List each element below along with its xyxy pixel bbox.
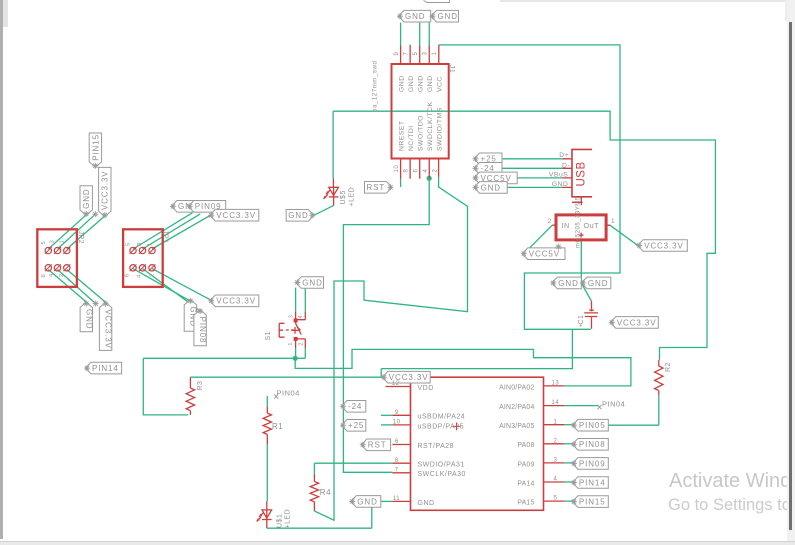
node junction dot S1 bottom bbox=[293, 356, 298, 361]
svg-text:9: 9 bbox=[394, 52, 400, 56]
svg-text:AIN2/PA04: AIN2/PA04 bbox=[499, 404, 534, 411]
wire S1 pin2 down bbox=[304, 348, 306, 358]
svg-text:5: 5 bbox=[554, 496, 558, 502]
svg-text:SWO/TDO: SWO/TDO bbox=[417, 115, 424, 151]
wire LED1 cathode rail bbox=[267, 527, 372, 529]
svg-text:2: 2 bbox=[298, 342, 304, 346]
window chrome: top hairline bbox=[500, 0, 785, 2]
svg-text:5: 5 bbox=[126, 242, 132, 246]
svg-text:GND: GND bbox=[481, 183, 501, 192]
svg-text:SWDCLK/TCK: SWDCLK/TCK bbox=[427, 101, 434, 151]
capacitor C1 bbox=[584, 301, 598, 329]
wire MCU pin14 AIN2 to PIN04 label bbox=[564, 405, 598, 407]
GND flag left of C1 bbox=[550, 277, 581, 289]
resistor R3 leads bbox=[189, 377, 191, 415]
svg-text:2: 2 bbox=[554, 438, 558, 444]
wire JP1 pin6 to GND flag bbox=[133, 269, 190, 302]
svg-text:4: 4 bbox=[298, 315, 304, 319]
svg-text:J1: J1 bbox=[448, 65, 457, 74]
svg-text:USB: USB bbox=[576, 161, 588, 186]
svg-text:5: 5 bbox=[413, 52, 419, 56]
flag GND vertical below JP1 bbox=[184, 298, 197, 331]
svg-text:R1: R1 bbox=[272, 422, 283, 431]
resistor R1 leads bbox=[266, 407, 268, 445]
wire left drop to R3 bottom bbox=[143, 358, 188, 415]
svg-text:2: 2 bbox=[548, 218, 552, 225]
regulator IC2 pin stubs bbox=[552, 224, 610, 226]
svg-text:1: 1 bbox=[288, 342, 294, 346]
wire MCU pin5 PA15 stub bbox=[564, 500, 572, 502]
svg-text:AIN3/PA05: AIN3/PA05 bbox=[499, 423, 534, 430]
wire JP1 pin3 up-right bbox=[143, 214, 201, 249]
watermark Go to Settings bbox=[668, 496, 795, 515]
switch S1 node dots bbox=[294, 318, 298, 322]
svg-text:1: 1 bbox=[432, 52, 438, 56]
svg-text:PIN15: PIN15 bbox=[91, 134, 100, 161]
wire SWCLK net J1 pin4 down-left to MCU pin7 bbox=[343, 178, 429, 472]
wire S1 net to MCU AIN0 pin13 bbox=[295, 349, 631, 386]
svg-text:GND: GND bbox=[417, 75, 424, 92]
svg-text:GND: GND bbox=[357, 497, 377, 506]
svg-text:5: 5 bbox=[41, 241, 47, 245]
wire USB D+ to +25 flag bbox=[502, 158, 563, 160]
svg-text:+: + bbox=[579, 323, 584, 330]
wire MCU pin11 GND to flag bbox=[381, 500, 393, 502]
flag GND vertical above JP2 bbox=[80, 186, 92, 217]
partial flag above top edge bbox=[424, 0, 450, 3]
wire MCU pin4 PA14 stub bbox=[564, 481, 572, 483]
star at JP2 bottom middle wire end bbox=[93, 301, 99, 307]
wire USB GND to GND flag bbox=[507, 186, 562, 188]
wire MCU pin1 AIN3 stub bbox=[564, 424, 572, 426]
wire IC2 OUT pin1 to VCC3.3V flag bbox=[610, 225, 638, 245]
svg-text:PIN15: PIN15 bbox=[579, 498, 606, 507]
wire net from LED2 anode across top to R2 bbox=[333, 111, 715, 360]
wire VCC3.3V branch to C1 rail bbox=[381, 329, 572, 368]
svg-text:6: 6 bbox=[125, 273, 131, 277]
wire JP1 pin5 to PIN09 area bbox=[133, 213, 192, 249]
wire MCU pin3 PA09 stub bbox=[564, 462, 572, 464]
wire S1 bottom rail to left bbox=[143, 357, 305, 359]
svg-text:RST: RST bbox=[368, 441, 387, 450]
svg-text:4: 4 bbox=[554, 477, 558, 483]
flag PIN08 bbox=[571, 439, 608, 451]
wire J1 pin10 stub tail bbox=[400, 179, 402, 187]
flag RST at MCU pin6 bbox=[360, 439, 391, 451]
flag GND at USB GND bbox=[473, 182, 508, 194]
wire JP2 pin2 to VCC3.3V flag bbox=[67, 270, 106, 303]
GND flag at J1 pin3 bbox=[430, 10, 459, 22]
header J1 top pin stubs bbox=[401, 45, 439, 64]
svg-text:uSBDM/PA24: uSBDM/PA24 bbox=[418, 414, 466, 421]
svg-text:11: 11 bbox=[393, 496, 400, 502]
window chrome: bottom band bbox=[0, 541, 795, 545]
resistor R2 leads bbox=[658, 360, 660, 396]
svg-text:VCC3.3V: VCC3.3V bbox=[104, 309, 113, 349]
svg-text:PIN14: PIN14 bbox=[579, 478, 606, 487]
svg-text:PIN04: PIN04 bbox=[602, 400, 625, 409]
svg-text:JP2: JP2 bbox=[77, 231, 84, 245]
svg-text:4: 4 bbox=[423, 169, 429, 173]
svg-text:3: 3 bbox=[50, 240, 56, 244]
svg-text:PIN08: PIN08 bbox=[198, 317, 207, 344]
MCU left pin stubs bbox=[386, 387, 411, 502]
svg-text:RST: RST bbox=[367, 183, 386, 192]
flag PIN15 vertical above JP2 bbox=[89, 133, 101, 169]
wire MCU pin2 PA08 stub bbox=[564, 443, 572, 445]
wire IC2 GND down to GND flags bbox=[580, 240, 582, 282]
svg-text:6: 6 bbox=[41, 274, 47, 278]
svg-text:GND: GND bbox=[302, 278, 322, 287]
svg-text:OuT: OuT bbox=[584, 221, 600, 230]
flag -24 at MCU USBDM bbox=[340, 401, 366, 413]
USB shield stubs bbox=[572, 197, 583, 206]
svg-text:NC/TDI: NC/TDI bbox=[408, 125, 415, 151]
flag VCC5V at IC2 IN bbox=[521, 248, 565, 260]
svg-text:PIN04: PIN04 bbox=[277, 389, 300, 398]
wire USB D- to -24 flag bbox=[502, 167, 563, 169]
svg-text:4: 4 bbox=[137, 274, 143, 278]
GND flag right at C1 bbox=[580, 277, 611, 289]
flag GND vertical below JP2 bbox=[80, 301, 93, 332]
svg-text:VDD: VDD bbox=[418, 385, 434, 392]
svg-text:14: 14 bbox=[552, 400, 560, 406]
USB pin stubs bbox=[563, 159, 573, 188]
wire LED2 cathode to GND flag bbox=[314, 206, 334, 216]
GND flag above S1 bbox=[294, 277, 323, 289]
svg-text:9: 9 bbox=[395, 410, 399, 416]
svg-text:PIN09: PIN09 bbox=[579, 459, 606, 468]
svg-text:VBuS: VBuS bbox=[549, 172, 568, 179]
wire JP2 pin5 to GND flag bbox=[48, 215, 86, 249]
svg-text:7: 7 bbox=[403, 52, 409, 56]
svg-text:R4: R4 bbox=[320, 488, 331, 497]
svg-text:PA09: PA09 bbox=[517, 461, 534, 468]
svg-text:-24: -24 bbox=[348, 402, 362, 411]
wire S1 pin1 down bbox=[295, 348, 297, 358]
wire USB VBUS to VCC5V flag bbox=[517, 177, 562, 179]
star at JP2 top middle wire end bbox=[92, 211, 98, 217]
resistor R3 body bbox=[186, 388, 194, 411]
flag +25 at USB D+ bbox=[473, 153, 503, 165]
wire VDD flag tee bbox=[380, 369, 382, 378]
wire LED2 anode vertical bbox=[332, 111, 334, 178]
LED U$5 top lead bbox=[332, 179, 334, 188]
svg-text:VCC3.3V: VCC3.3V bbox=[617, 318, 657, 327]
resistor R4 body bbox=[310, 482, 318, 502]
svg-text:GND: GND bbox=[588, 279, 608, 288]
wire JP1 pin4 to PIN08 flag bbox=[143, 269, 201, 311]
wire IC2 IN pin2 to VCC5V flag bbox=[529, 225, 552, 248]
svg-text:PIN05: PIN05 bbox=[579, 421, 606, 430]
switch S1 symbol bbox=[279, 312, 305, 348]
wire J1 pin3 to GND flag bbox=[428, 23, 430, 46]
svg-text:PA14: PA14 bbox=[517, 480, 534, 487]
svg-text:GND: GND bbox=[552, 181, 569, 188]
window chrome: left edge strip bbox=[0, 0, 3, 539]
star mark at VCC5V flag corner bbox=[556, 244, 562, 250]
wire JP1 pin2 to VCC3.3V flag bbox=[152, 269, 210, 300]
wire S1 pin3 up to GND flag bbox=[295, 288, 297, 312]
wire S1 pin4 up bbox=[304, 288, 306, 312]
wire JP1 pin1 to VCC3.3V flag bbox=[152, 215, 211, 249]
flag VCC3.3V vertical above JP2 bbox=[99, 167, 111, 218]
svg-text:VCC3.3V: VCC3.3V bbox=[644, 241, 684, 250]
resistor R2 body bbox=[655, 366, 663, 391]
svg-text:8: 8 bbox=[404, 169, 410, 173]
flag VCC3.3V above JP1 bbox=[208, 209, 258, 221]
svg-text:VCC3.3V: VCC3.3V bbox=[101, 170, 110, 210]
svg-text:4: 4 bbox=[49, 273, 55, 277]
flag PIN14 bbox=[571, 477, 608, 489]
svg-text:2: 2 bbox=[59, 273, 65, 277]
svg-text:D+: D+ bbox=[559, 152, 569, 159]
svg-text:GND: GND bbox=[84, 309, 93, 329]
svg-text:PA08: PA08 bbox=[517, 442, 534, 449]
wire PIN04 net to R1 top bbox=[266, 396, 268, 407]
svg-text:S1: S1 bbox=[265, 331, 272, 341]
GND flag at LED2 cathode bbox=[286, 210, 315, 222]
svg-text:AIN0/PA02: AIN0/PA02 bbox=[499, 384, 534, 391]
svg-text:1: 1 bbox=[611, 218, 615, 225]
node junction dot under J1 pin4 bbox=[427, 176, 432, 181]
svg-text:NRESET: NRESET bbox=[398, 120, 405, 151]
LED U$1 (LED1) bbox=[257, 510, 272, 528]
wire GND flags to C1 top bbox=[581, 283, 591, 301]
flag VCC3.3V at MCU VDD bbox=[381, 371, 430, 383]
svg-text:3: 3 bbox=[137, 242, 143, 246]
regulator IC2 polarity mark bbox=[579, 233, 584, 238]
flag PIN14 left area bbox=[84, 362, 122, 374]
flag VCC3.3V at IC2 OUT bbox=[636, 240, 687, 252]
svg-text:10: 10 bbox=[394, 165, 400, 173]
flag GND above JP1 bbox=[170, 201, 202, 213]
svg-text:JP1: JP1 bbox=[162, 230, 169, 244]
resistor R4 leads bbox=[313, 474, 315, 511]
header J1 box bbox=[392, 64, 449, 159]
wire GND drop to LED1 rail bbox=[371, 502, 373, 528]
wire MCU pin9 USBDM stub bbox=[381, 414, 392, 416]
svg-text:GND: GND bbox=[418, 500, 435, 507]
svg-text:GND: GND bbox=[82, 188, 91, 208]
node junction dot joint SWCLK elbow bbox=[342, 224, 344, 226]
svg-text:SWDIO/TMS: SWDIO/TMS bbox=[437, 107, 444, 151]
wire SWDIO rail to R4 top and MCU pin8 bbox=[314, 463, 392, 474]
svg-text:GND: GND bbox=[438, 12, 458, 21]
svg-text:IN: IN bbox=[562, 221, 570, 230]
svg-text:1: 1 bbox=[60, 240, 66, 244]
wire SWDIO net J1 pin2 zigzag path to R4 bottom bbox=[314, 177, 467, 520]
svg-text:2: 2 bbox=[432, 169, 438, 173]
wire MCU pin10 USBDP stub bbox=[381, 424, 392, 426]
svg-text:GND: GND bbox=[405, 12, 425, 21]
connector JP1 (right) bbox=[123, 229, 163, 287]
svg-text:mic5205_33YM5: mic5205_33YM5 bbox=[576, 196, 582, 248]
MCU IC box bbox=[411, 377, 544, 510]
wire JP2 pin6 to GND flag bbox=[48, 270, 86, 303]
wire R1 bottom to LED1 anode bbox=[266, 444, 268, 501]
svg-text:+LED: +LED bbox=[285, 509, 292, 529]
LED U$5 (LED2) bbox=[323, 187, 338, 205]
svg-text:VCC5V: VCC5V bbox=[529, 250, 560, 259]
header J1 bottom pin stubs bbox=[401, 159, 439, 179]
svg-text:PIN08: PIN08 bbox=[579, 440, 606, 449]
wire J1 pin5 to GND flag bbox=[419, 23, 421, 46]
svg-text:GND: GND bbox=[288, 211, 308, 220]
flag VCC5V at USB VBUS bbox=[473, 172, 518, 184]
svg-text:VCC3.3V: VCC3.3V bbox=[216, 211, 256, 220]
wire R2 bottom to PIN05 net bbox=[658, 395, 660, 425]
svg-text:PA15: PA15 bbox=[517, 500, 534, 507]
wire PIN05 flag to R2 net bbox=[608, 424, 659, 426]
flag PIN09 bbox=[571, 458, 608, 470]
svg-text:6: 6 bbox=[413, 169, 419, 173]
svg-text:3: 3 bbox=[554, 458, 558, 464]
svg-text:1: 1 bbox=[148, 242, 154, 246]
regulator IC2 box bbox=[556, 215, 606, 240]
svg-text:+25: +25 bbox=[348, 421, 364, 430]
svg-text:3: 3 bbox=[422, 52, 428, 56]
svg-text:GND: GND bbox=[427, 75, 434, 92]
MCU right pin stubs bbox=[544, 386, 565, 501]
svg-text:2: 2 bbox=[150, 273, 156, 277]
svg-text:GND: GND bbox=[558, 279, 578, 288]
flag PIN05 bbox=[571, 419, 608, 431]
wire J1 pin9 to GND flag bbox=[400, 23, 402, 46]
resistor R1 body bbox=[263, 413, 271, 434]
svg-text:10: 10 bbox=[393, 420, 401, 426]
svg-text:8: 8 bbox=[395, 458, 399, 464]
svg-text:R2: R2 bbox=[665, 362, 672, 372]
flag +25 at MCU USBDP bbox=[340, 420, 366, 432]
wire VCC net J1-pin1 to regulator/C1 loop bbox=[439, 45, 620, 329]
flag -24 at USB D- bbox=[473, 163, 503, 175]
wire JP2 pin4 down-right bbox=[58, 270, 96, 304]
svg-text:SWCLK/PA30: SWCLK/PA30 bbox=[418, 471, 466, 478]
window chrome: right scrollbar thumb bbox=[789, 22, 792, 530]
svg-text:PIN14: PIN14 bbox=[92, 364, 119, 373]
watermark Activate Windows bbox=[669, 470, 795, 493]
USB connector outline bbox=[572, 149, 592, 196]
svg-text:3: 3 bbox=[288, 315, 294, 319]
svg-text:D-: D- bbox=[562, 162, 570, 169]
svg-text:GND: GND bbox=[408, 75, 415, 92]
svg-text:U$5: U$5 bbox=[340, 190, 347, 204]
svg-text:SWDIO/PA31: SWDIO/PA31 bbox=[418, 462, 465, 469]
flag PIN08 vertical below JP1 bbox=[194, 308, 207, 346]
flag PIN09 above JP1 bbox=[187, 201, 226, 213]
svg-text:GND: GND bbox=[398, 75, 405, 92]
flag PIN15 bbox=[571, 496, 608, 508]
window chrome: right scrollbar track bbox=[787, 0, 795, 545]
svg-text:RST/PA28: RST/PA28 bbox=[418, 443, 455, 450]
svg-text:6: 6 bbox=[395, 439, 399, 445]
svg-text:7: 7 bbox=[395, 467, 399, 473]
window chrome: top-right corner block bbox=[785, 0, 795, 21]
origin cross of MCU bbox=[453, 422, 461, 430]
svg-text:1: 1 bbox=[554, 419, 558, 425]
flag GND at MCU pin11 bbox=[349, 496, 381, 508]
RST flag near J1 pin10 bbox=[365, 182, 394, 194]
connector JP2 (left) bbox=[37, 229, 77, 287]
flag VCC3.3V vertical below JP2 bbox=[99, 301, 112, 351]
flag VCC3.3V below C1 bbox=[609, 317, 659, 329]
svg-text:R3: R3 bbox=[197, 381, 204, 391]
GND flag at J1 pin9 bbox=[397, 10, 431, 22]
svg-text:12: 12 bbox=[392, 381, 400, 387]
svg-text:13: 13 bbox=[552, 381, 560, 387]
LED U$1 top lead bbox=[266, 501, 268, 510]
svg-text:pa_127mm_swd: pa_127mm_swd bbox=[372, 61, 379, 112]
svg-text:U$1: U$1 bbox=[277, 514, 284, 528]
wire JP2 pin1 to VCC3.3V flag bbox=[67, 216, 105, 249]
flag VCC3.3V below JP1 bbox=[208, 295, 258, 307]
svg-text:VCC3.3V: VCC3.3V bbox=[216, 297, 256, 306]
wire JP2 pin3 up-right bbox=[58, 214, 96, 249]
svg-text:+LED: +LED bbox=[349, 187, 356, 207]
wire R3 top to VDD VCC3.3V flag bbox=[190, 376, 382, 378]
svg-text:VCC: VCC bbox=[437, 76, 444, 92]
